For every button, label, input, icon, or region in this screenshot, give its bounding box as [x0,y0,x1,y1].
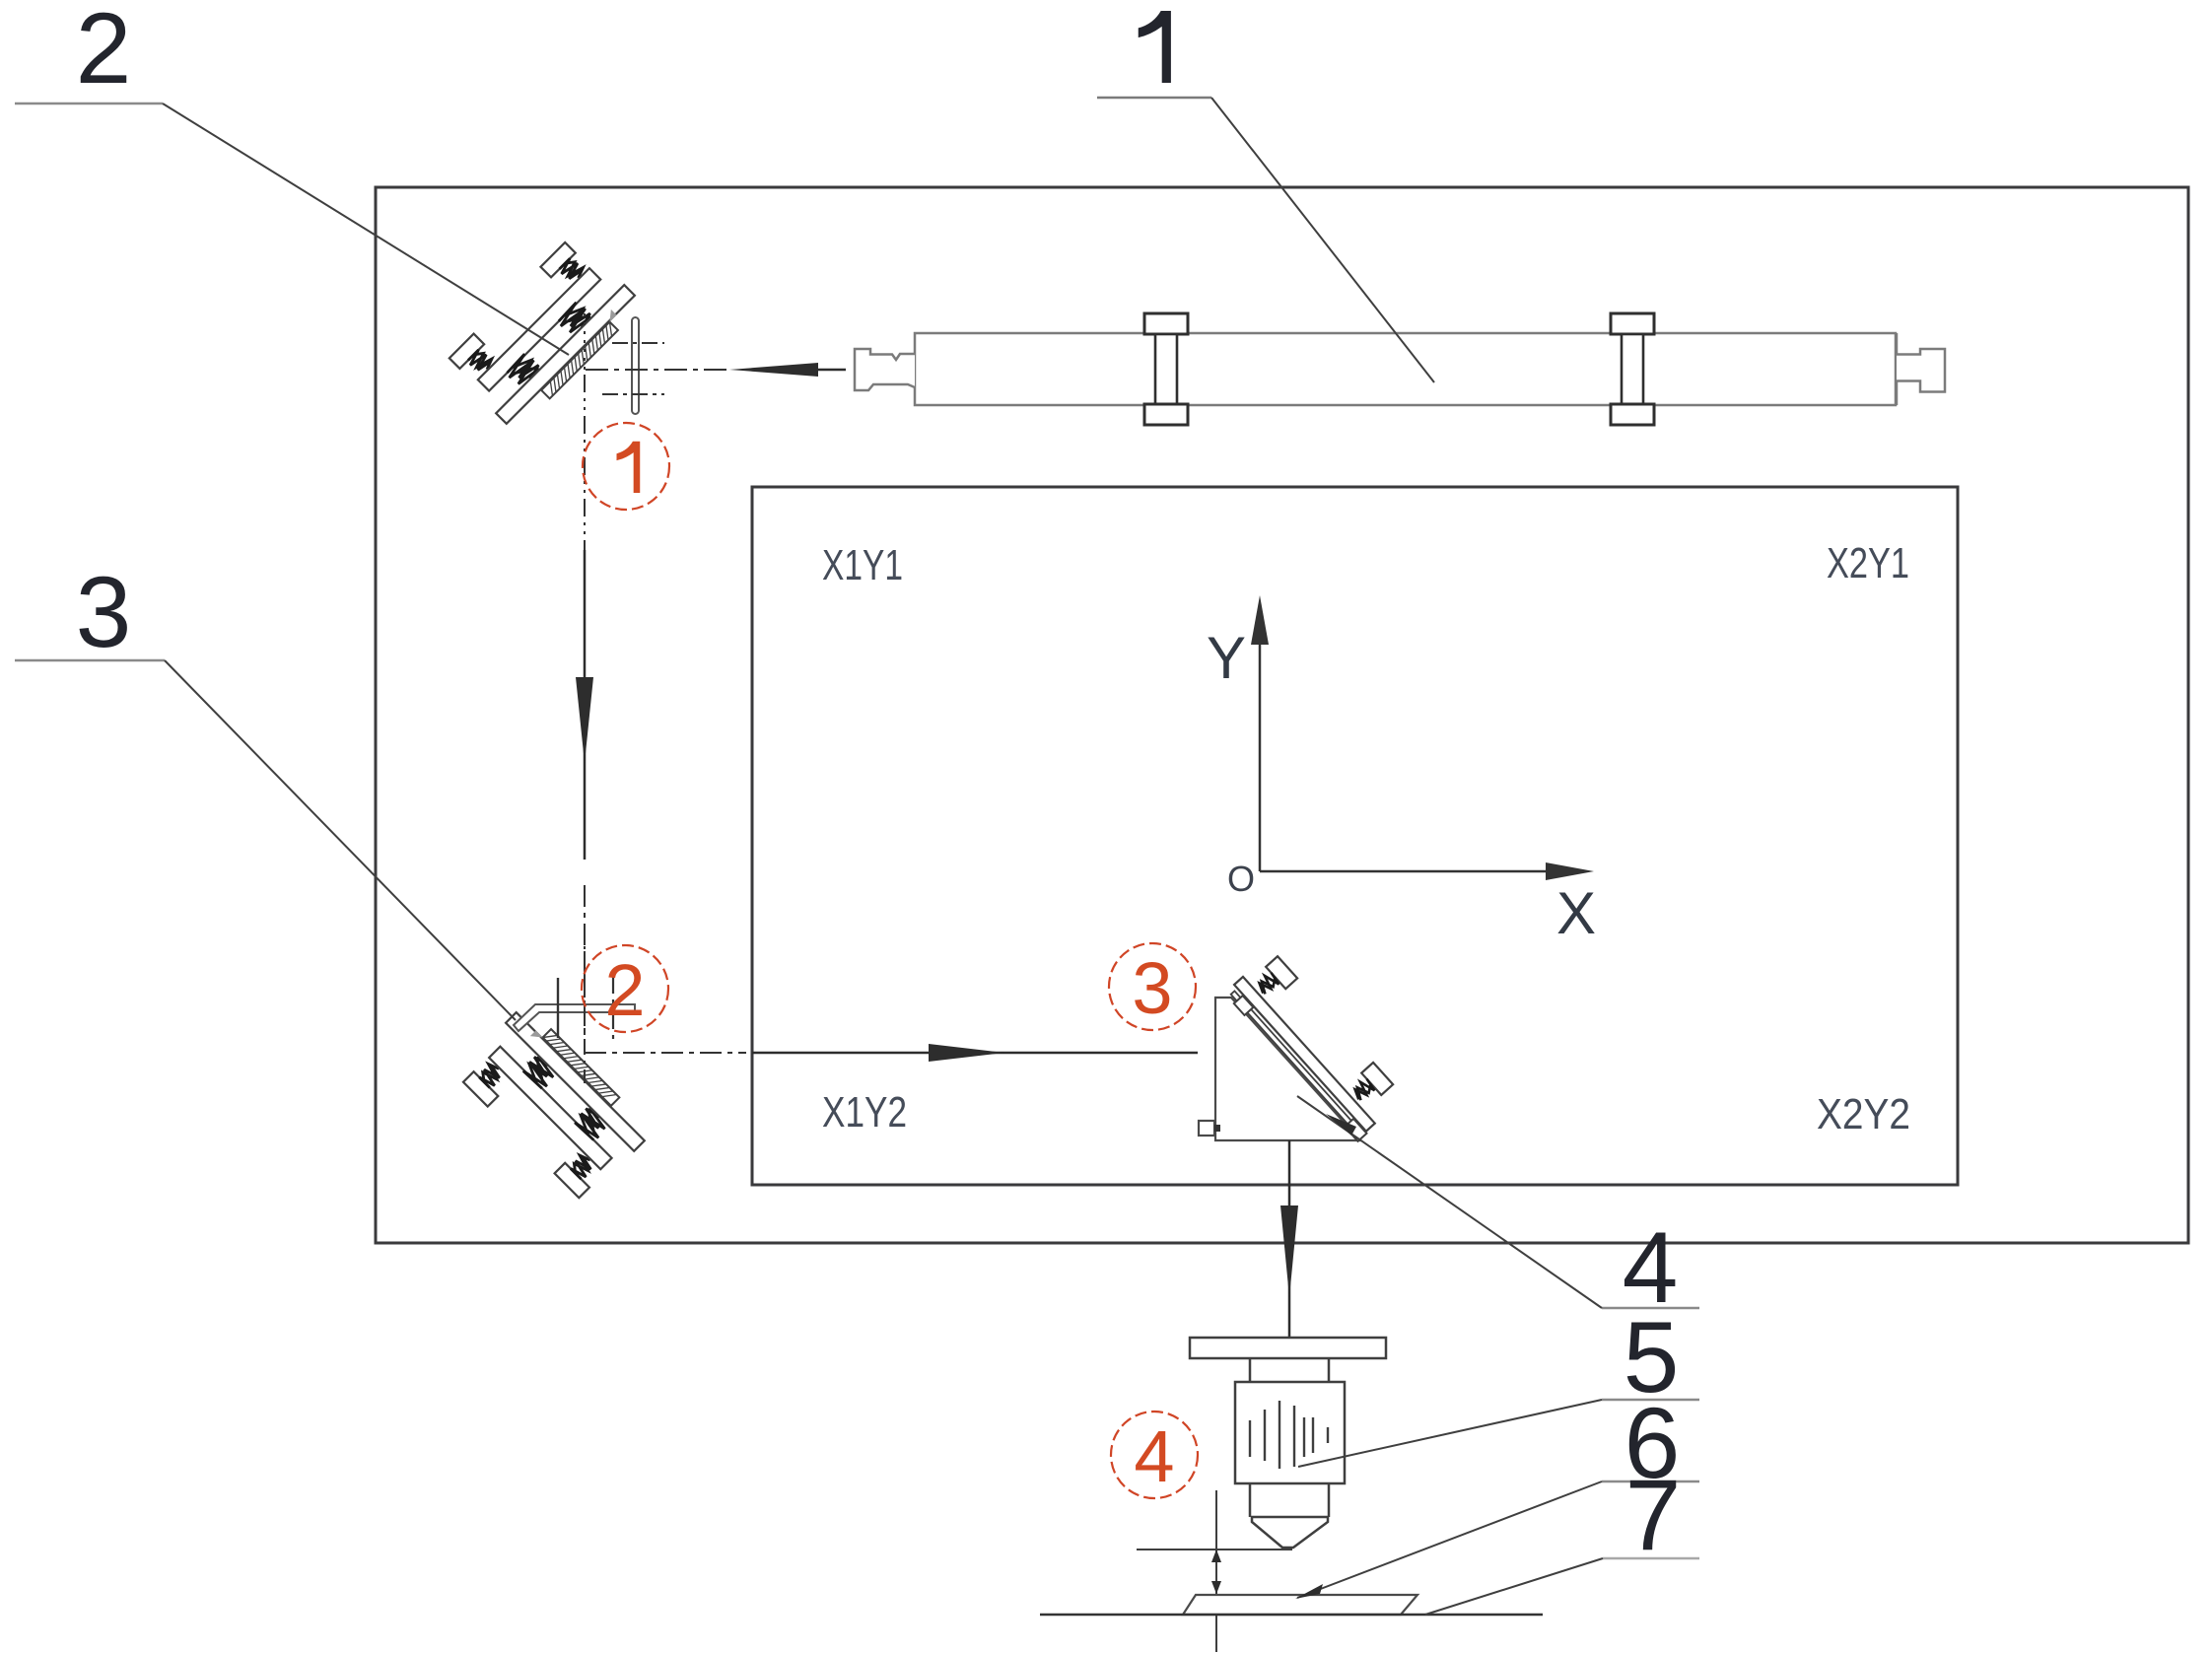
mirror 2 top bracket [514,1004,635,1031]
inner work-area rectangle [752,487,1958,1185]
vertical beam mirror1 to mirror2: upper dash-dot [584,375,586,550]
mirror 3 side sensor square [1199,1121,1214,1136]
label 6 underline [1602,1481,1699,1483]
mirror strip [1231,991,1360,1134]
mirror 3 sensor nub [1214,1125,1220,1132]
svg-text:7: 7 [1625,1459,1682,1571]
screw head top [1266,956,1297,989]
bottom end cap [1345,1119,1366,1141]
vertical beam elongated arrow [1280,1205,1298,1297]
coordinate axis Y [1259,639,1262,871]
beam arrow toward mirror 1 [729,363,818,377]
label 6 leader arrow [1295,1584,1323,1599]
label 1 underline [1097,97,1211,99]
focus head flange [1190,1338,1386,1358]
beam shaft at tube exit [818,369,846,372]
holder bar [1234,977,1375,1132]
mirror2 centre line vertical [584,927,586,1087]
label 3 underline [15,659,165,662]
label 1 numeral [1139,11,1171,83]
mirror 3 triangle bracket [1215,998,1360,1140]
focus head lower neck [1250,1483,1329,1517]
svg-text:X1Y1: X1Y1 [822,541,903,589]
label 6 leader line [1297,1481,1602,1598]
workpiece (component 6) [1183,1595,1417,1615]
mirror mount 1 [446,234,645,433]
screw spring bottom [1350,1077,1376,1102]
mirror2 beam width mark right [612,974,614,1045]
mirror2 centre line horizontal [585,1052,746,1054]
red circle marker 1 [583,423,669,510]
mirror 3 mirror bar assembly [1224,950,1405,1141]
outer frame rectangle [376,187,2188,1243]
svg-text:2: 2 [76,0,132,104]
beam width mark lower [602,393,664,395]
lens hatch lines (component 5) [1250,1401,1328,1469]
svg-text:Y: Y [1207,625,1246,691]
beam from tube to mirror 1: dash-dot centre line [586,369,731,371]
label 5 leader line [1298,1400,1602,1467]
label 2 underline [15,103,163,105]
work table line (component 7) [1040,1614,1543,1617]
red circle marker 2 [582,945,668,1032]
vertical beam solid segment [584,550,587,860]
label 2 leader line [163,103,569,355]
laser tube left end plug [855,349,915,390]
mirror 1 side bracket [632,317,639,414]
top end cap [1234,996,1254,1015]
svg-text:O: O [1227,859,1255,899]
focus head body [1235,1382,1345,1483]
dimension arrow up [1211,1550,1221,1562]
label 7 leader line [1425,1558,1603,1615]
screw spring top [1255,971,1280,996]
label 1 leader line [1211,98,1434,382]
horizontal beam mirror2 to mirror3 solid [752,1052,1198,1055]
dimension arrow down [1211,1581,1221,1594]
label 5 underline [1602,1399,1699,1402]
svg-text:X2Y1: X2Y1 [1827,539,1909,587]
label 4 leader line [1297,1096,1602,1308]
svg-text:X2Y2: X2Y2 [1817,1090,1910,1138]
red circle marker 3 [1109,943,1196,1030]
laser tube right end connector [1897,333,1945,405]
standoff dimension line [1215,1490,1217,1652]
label 7 underline [1603,1557,1699,1560]
beam width mark upper [612,342,664,344]
screw head bottom [1361,1063,1393,1095]
vertical beam elongated arrow [576,677,593,763]
mirror mount 2 [454,1003,654,1203]
vertical beam lower dash-dot [584,885,586,1048]
laser tube body (component 1) [915,333,1896,405]
svg-text:2: 2 [604,949,645,1031]
tube clamp bracket right [1611,313,1654,425]
centre line above mirror 1 [584,313,586,370]
nozzle tip extension line [1137,1549,1292,1550]
svg-text:4: 4 [1134,1415,1174,1497]
svg-text:X1Y2: X1Y2 [822,1088,907,1136]
red circle marker 4 [1111,1412,1198,1498]
mirror2 beam width mark left [557,978,559,1038]
svg-text:3: 3 [1132,947,1172,1029]
label 4 underline [1602,1307,1699,1310]
horizontal beam elongated arrow [929,1044,1004,1062]
label 3 leader line [165,660,516,1020]
nozzle cone [1252,1517,1328,1548]
tube clamp bracket left [1144,313,1188,425]
label 4 leader arrow [1326,1114,1356,1136]
svg-text:X: X [1556,880,1596,946]
focus head upper neck [1250,1358,1329,1382]
coordinate axis X [1260,870,1550,873]
vertical beam mirror3 to focus head [1288,1140,1291,1337]
svg-text:3: 3 [76,556,132,668]
